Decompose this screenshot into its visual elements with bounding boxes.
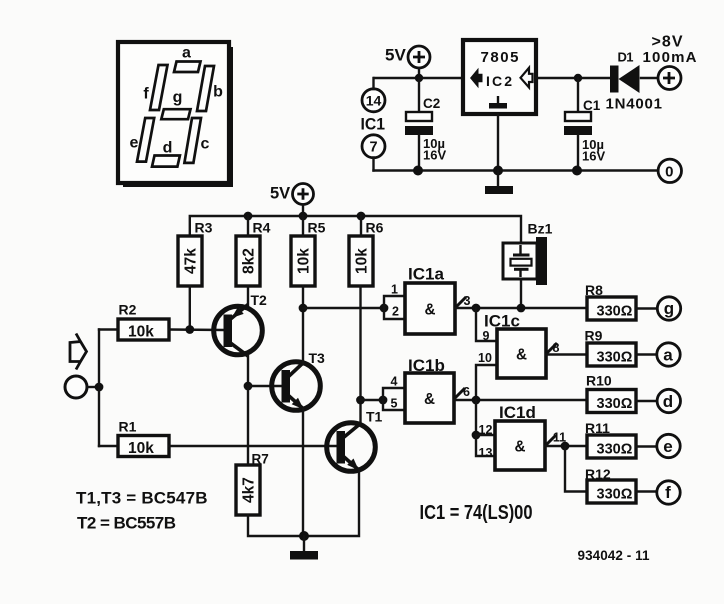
svg-text:R6: R6 xyxy=(366,220,384,236)
inverter slash IC1d output xyxy=(545,435,556,446)
node T2 collector / T3 base / R7 xyxy=(244,382,253,391)
terminal 5V plus (mid) xyxy=(293,184,314,205)
wire R9 to terminal a xyxy=(636,353,657,355)
wire IC1d output xyxy=(545,445,587,447)
svg-text:T3: T3 xyxy=(309,350,326,366)
terminal g xyxy=(657,297,680,320)
node IC1a input bracket xyxy=(380,304,389,313)
wire C2 top lead xyxy=(418,78,420,112)
svg-text:R5: R5 xyxy=(308,220,326,236)
inverter slash IC1b output xyxy=(454,388,465,399)
node junction C1/ground xyxy=(572,166,582,176)
wire IC1a output to R8 xyxy=(455,307,587,309)
wire IC1c output to R9 xyxy=(546,353,587,355)
svg-text:0: 0 xyxy=(665,163,673,180)
wire R12 to terminal f xyxy=(636,490,657,492)
wire T2 collector down xyxy=(247,356,249,387)
inverter slash IC1a output xyxy=(455,297,466,308)
wire pin14 up to rail xyxy=(372,78,374,89)
svg-text:5V: 5V xyxy=(385,46,406,65)
svg-text:12: 12 xyxy=(479,423,493,437)
resistor R12 330 xyxy=(587,480,636,503)
svg-text:100mA: 100mA xyxy=(643,49,697,66)
gate IC1a xyxy=(405,283,455,334)
node R6 / T1 / IC1b input xyxy=(356,396,365,405)
resistor R5 10k xyxy=(291,236,315,286)
gate IC1d xyxy=(495,421,545,470)
wire IC2 common pin down xyxy=(497,114,499,171)
wire IC1c pin 10 xyxy=(476,365,497,400)
svg-text:R8: R8 xyxy=(585,282,603,298)
segment d xyxy=(152,156,180,167)
transistor T3 BC547B xyxy=(272,362,321,411)
segment g xyxy=(161,109,190,119)
buzzer Bz1 xyxy=(503,237,547,285)
node junction at C2 top xyxy=(415,74,423,82)
svg-text:10: 10 xyxy=(478,351,492,365)
svg-text:&: & xyxy=(425,302,436,319)
wire R7 top xyxy=(247,386,249,465)
regulator IC2 7805 xyxy=(463,40,536,114)
svg-text:16V: 16V xyxy=(423,148,446,163)
svg-text:8k2: 8k2 xyxy=(241,248,258,274)
wire down to IC1d input xyxy=(475,400,477,435)
capacitor C1 xyxy=(564,112,592,135)
wire IC1d input pins 12,13 bracket xyxy=(476,435,495,456)
wire IC1c pin 9 xyxy=(476,308,497,341)
svg-text:1N4001: 1N4001 xyxy=(606,96,663,113)
svg-text:47k: 47k xyxy=(183,248,200,274)
transistor T2 BC557B xyxy=(214,305,263,357)
svg-text:10k: 10k xyxy=(128,440,154,457)
svg-text:IC1 = 74(LS)00: IC1 = 74(LS)00 xyxy=(420,502,533,524)
resistor R1 10k xyxy=(118,436,169,458)
node input junction xyxy=(95,383,104,392)
wire R8 to terminal g xyxy=(636,307,658,309)
svg-text:R12: R12 xyxy=(585,466,611,482)
wire input vertical xyxy=(98,330,100,447)
svg-text:R7: R7 xyxy=(252,452,269,467)
wire T3 emitter to ground xyxy=(302,409,304,536)
svg-text:R9: R9 xyxy=(585,328,603,344)
svg-text:R10: R10 xyxy=(586,373,612,389)
wire R10 to terminal d xyxy=(636,400,657,402)
wire pin7 down to ground rail xyxy=(372,158,374,171)
svg-text:T1,T3 = BC547B: T1,T3 = BC547B xyxy=(76,489,208,508)
wire 5V terminal to rail xyxy=(418,68,420,78)
pin 14 of IC1 xyxy=(362,89,385,112)
svg-text:R4: R4 xyxy=(253,220,271,236)
svg-text:13: 13 xyxy=(479,446,493,460)
wire to R1 xyxy=(99,445,118,447)
svg-text:T1: T1 xyxy=(366,409,383,425)
wire R5 bottom to T3 collector xyxy=(302,286,304,363)
svg-text:R11: R11 xyxy=(585,420,610,436)
segment c xyxy=(184,118,201,163)
input terminal circle xyxy=(65,376,87,398)
svg-text:330Ω: 330Ω xyxy=(597,304,633,320)
pin 7 of IC1 xyxy=(362,135,385,158)
node rail/R4 xyxy=(244,212,253,221)
resistor R6 10k xyxy=(349,236,373,286)
7-segment display module LD1 xyxy=(118,42,233,187)
wire R4 top xyxy=(247,216,249,236)
svg-text:>8V: >8V xyxy=(652,34,683,51)
node rail/R6 xyxy=(357,212,366,221)
svg-text:a: a xyxy=(182,45,191,62)
wire C1 top lead xyxy=(577,78,579,112)
node R5 / T3 / IC1a input xyxy=(299,304,308,313)
svg-text:330Ω: 330Ω xyxy=(597,396,633,412)
segment e xyxy=(137,118,154,162)
resistor R8 330 xyxy=(587,297,636,320)
terminal plus (input >8V) xyxy=(658,67,681,90)
input probe arrow xyxy=(70,334,87,370)
wire R5 top xyxy=(302,216,304,236)
svg-text:16V: 16V xyxy=(582,149,605,164)
wire to R2 xyxy=(99,328,118,330)
resistor R9 330 xyxy=(587,343,636,366)
svg-text:330Ω: 330Ω xyxy=(597,487,633,503)
wire IC1b input pins 4,5 bracket xyxy=(383,388,405,410)
resistor R4 8k2 xyxy=(236,236,260,286)
svg-text:6: 6 xyxy=(463,385,470,399)
wire C2 bottom lead xyxy=(418,135,420,171)
wire T3 base xyxy=(248,385,282,387)
svg-text:10k: 10k xyxy=(296,248,313,274)
node Bz1 / output wire xyxy=(517,304,526,313)
svg-text:b: b xyxy=(213,84,223,101)
ground symbol (main) xyxy=(290,536,318,560)
resistor R7 4k7 xyxy=(236,465,260,515)
wire IC1b input xyxy=(361,399,384,401)
svg-text:330Ω: 330Ω xyxy=(597,442,633,458)
svg-text:14: 14 xyxy=(366,92,382,108)
node IC1d input bracket xyxy=(472,431,481,440)
svg-text:7805: 7805 xyxy=(481,49,519,66)
svg-text:d: d xyxy=(663,392,673,411)
svg-text:8: 8 xyxy=(553,341,560,355)
node R3/R2/T2 base xyxy=(185,325,194,334)
wire Bz1 bottom xyxy=(520,279,522,308)
svg-text:IC1b: IC1b xyxy=(408,356,445,375)
svg-text:d: d xyxy=(163,140,173,157)
gate IC1b xyxy=(405,373,454,423)
svg-text:a: a xyxy=(663,346,673,365)
svg-text:C1: C1 xyxy=(583,98,601,113)
wire 5V supply rail xyxy=(190,216,521,243)
svg-text:Bz1: Bz1 xyxy=(528,221,553,237)
svg-text:3: 3 xyxy=(464,294,471,308)
svg-text:&: & xyxy=(515,439,526,456)
terminal a xyxy=(657,343,680,366)
segment a xyxy=(174,62,201,73)
svg-text:R2: R2 xyxy=(119,302,137,318)
wire diode to plus terminal xyxy=(641,77,658,79)
svg-text:10k: 10k xyxy=(354,248,371,274)
segment b xyxy=(197,66,214,111)
svg-text:e: e xyxy=(663,437,672,456)
svg-text:1: 1 xyxy=(391,283,398,297)
terminal d xyxy=(657,389,680,412)
wire ground rail (top section) xyxy=(374,169,659,171)
svg-text:4k7: 4k7 xyxy=(241,477,258,503)
wire R4 bottom to T2 emitter xyxy=(247,286,249,307)
wire IC1a input pins 1,2 bracket xyxy=(384,296,405,319)
wire IC1a input xyxy=(303,307,384,309)
capacitor C2 xyxy=(405,112,433,135)
node IC1d out / R11 / R12 xyxy=(561,442,570,451)
terminal 0 xyxy=(658,159,681,182)
terminal e xyxy=(657,434,680,457)
svg-text:5V: 5V xyxy=(270,185,290,203)
ground symbol (psu) xyxy=(485,171,513,195)
segment f xyxy=(150,65,168,110)
terminal f xyxy=(657,481,680,504)
wire IC2 input from diode xyxy=(536,77,611,79)
gate IC1c xyxy=(497,329,546,378)
svg-text:c: c xyxy=(201,136,210,153)
svg-text:10k: 10k xyxy=(128,324,154,341)
svg-text:e: e xyxy=(130,135,139,152)
svg-text:4: 4 xyxy=(391,375,398,389)
node ground junction xyxy=(299,531,309,541)
node junction C2/ground xyxy=(413,166,423,176)
resistor R2 10k xyxy=(118,319,169,341)
node rail/R5 xyxy=(299,212,308,221)
svg-text:IC1a: IC1a xyxy=(408,265,444,284)
wire R7 bottom to ground xyxy=(248,515,304,536)
svg-text:IC1: IC1 xyxy=(361,115,386,134)
svg-text:R3: R3 xyxy=(195,220,213,236)
wire to R12 xyxy=(565,446,587,492)
wire R6 top xyxy=(360,216,362,236)
resistor R11 330 xyxy=(587,435,636,458)
svg-text:2: 2 xyxy=(392,305,399,319)
svg-text:9: 9 xyxy=(483,329,490,343)
wire R3 bottom to T2 base node xyxy=(189,286,191,330)
svg-text:f: f xyxy=(665,483,671,502)
wire input to node xyxy=(87,386,99,388)
svg-text:g: g xyxy=(173,89,183,106)
node IC1b out / IC1c pin10 / IC1d input xyxy=(472,396,481,405)
svg-text:&: & xyxy=(516,347,527,364)
svg-text:&: & xyxy=(424,391,435,408)
node junction at C1 top xyxy=(574,74,582,82)
wire R11 to terminal e xyxy=(636,445,657,447)
node junction IC2/ground xyxy=(493,166,503,176)
inverter slash IC1c output xyxy=(546,343,557,354)
terminal 5V plus (top) xyxy=(408,46,430,68)
svg-text:g: g xyxy=(664,299,674,318)
wire R1 to T1 base xyxy=(169,445,337,447)
resistor R10 330 xyxy=(587,390,636,413)
svg-text:T2: T2 xyxy=(251,292,268,308)
wire IC2 output rail xyxy=(374,77,463,79)
wire 5V terminal stub xyxy=(302,205,304,217)
svg-text:IC1d: IC1d xyxy=(499,403,536,422)
transistor T1 BC547B xyxy=(327,423,376,472)
wire R2 to T2 base xyxy=(169,328,224,331)
svg-text:C2: C2 xyxy=(423,96,440,111)
node IC1b input bracket xyxy=(379,396,388,405)
svg-text:934042 - 11: 934042 - 11 xyxy=(578,548,650,563)
svg-text:330Ω: 330Ω xyxy=(597,350,633,366)
svg-text:f: f xyxy=(143,86,149,103)
svg-text:5: 5 xyxy=(391,397,398,411)
diode D1 1N4001 xyxy=(610,65,640,93)
resistor R3 47k xyxy=(178,236,202,286)
svg-text:T2 = BC557B: T2 = BC557B xyxy=(77,514,176,533)
wire R6 bottom to T1 collector xyxy=(359,286,361,424)
svg-text:D1: D1 xyxy=(618,50,634,65)
wire IC1b output to R10 xyxy=(454,399,587,401)
wire C1 bottom lead xyxy=(577,135,579,171)
svg-text:IC1c: IC1c xyxy=(484,312,520,331)
wire T1 emitter to ground xyxy=(304,471,359,537)
node IC1a out / IC1c pin9 xyxy=(472,304,481,313)
svg-text:7: 7 xyxy=(369,140,377,156)
svg-text:R1: R1 xyxy=(119,419,137,435)
